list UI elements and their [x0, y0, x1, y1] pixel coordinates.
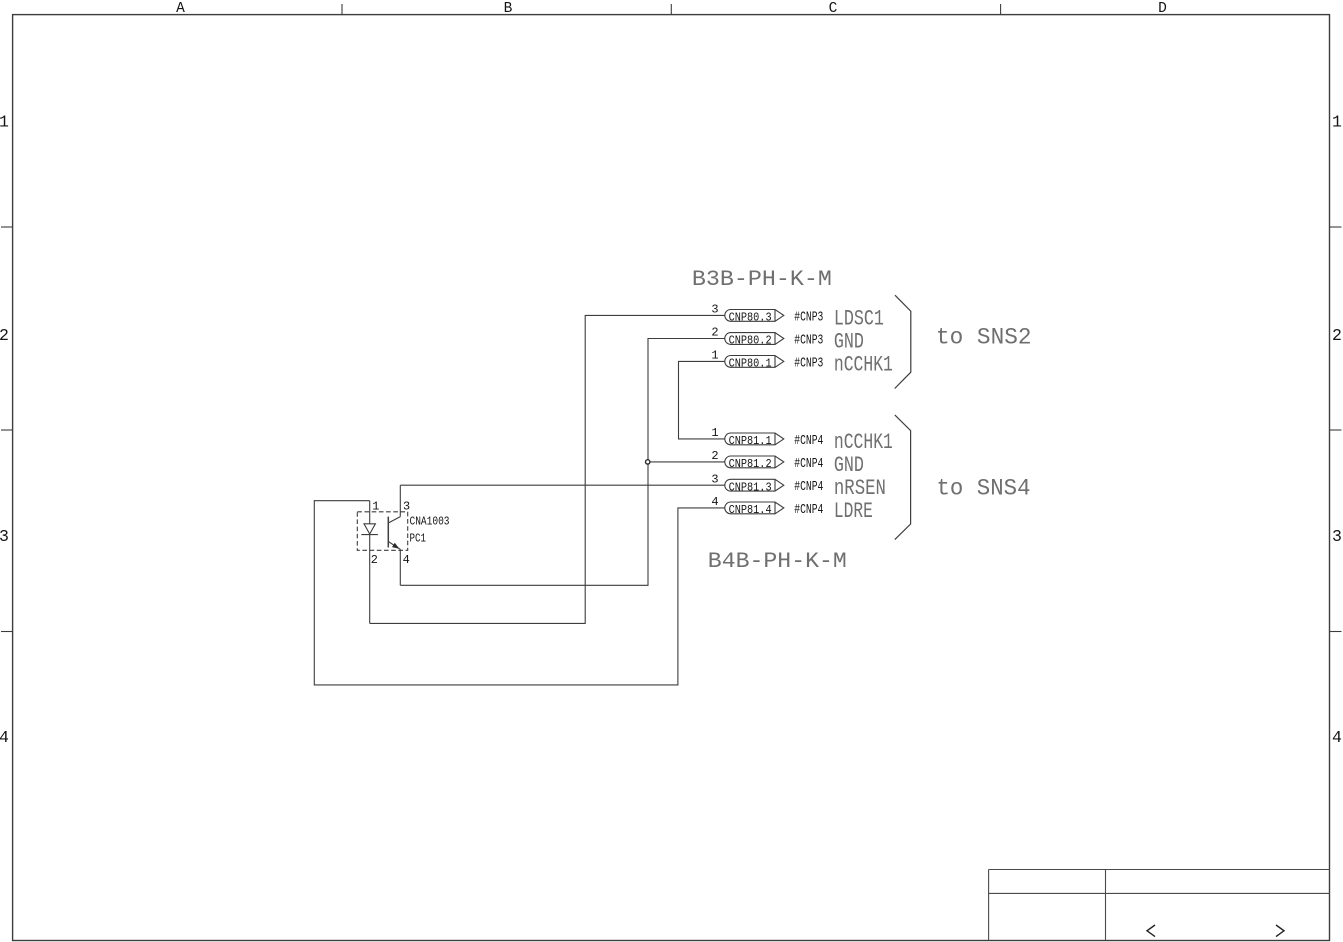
title block horizontal divider: [989, 892, 1330, 894]
svg-text:CNP81.2: CNP81.2: [729, 457, 772, 471]
port symbol CNP81.1: [725, 433, 784, 445]
svg-text:1: 1: [1332, 113, 1342, 132]
column tick 3: [1000, 4, 1002, 15]
svg-text:GND: GND: [834, 330, 864, 355]
svg-text:3: 3: [1332, 527, 1342, 546]
title block right chevron: [1276, 925, 1284, 937]
svg-text:4: 4: [403, 553, 410, 567]
row tick left 2: [1, 429, 13, 431]
port symbol CNP81.3: [725, 479, 784, 491]
svg-text:CNP81.1: CNP81.1: [729, 434, 772, 448]
svg-text:#CNP4: #CNP4: [794, 502, 823, 518]
svg-text:3: 3: [711, 472, 718, 486]
column tick 2: [670, 4, 672, 15]
svg-text:A: A: [176, 1, 185, 17]
svg-text:LDSC1: LDSC1: [834, 306, 884, 331]
wire net LDRE: CNP81.4 to PC1 pin1: [314, 501, 725, 685]
svg-text:#CNP3: #CNP3: [794, 309, 823, 325]
svg-text:LDRE: LDRE: [834, 499, 873, 524]
wire net LDSC1: CNP80.3 to PC1 pin2: [370, 315, 725, 623]
svg-text:nRSEN: nRSEN: [834, 476, 886, 501]
svg-text:CNP81.3: CNP81.3: [729, 480, 772, 494]
wire net GND: CNP80.2 down to PC1 pin4: [400, 339, 725, 586]
svg-text:1: 1: [711, 426, 718, 440]
svg-text:B4B-PH-K-M: B4B-PH-K-M: [708, 549, 847, 574]
svg-text:2: 2: [371, 553, 378, 567]
svg-text:nCCHK1: nCCHK1: [834, 430, 893, 455]
row tick left 1: [1, 226, 13, 228]
svg-text:1: 1: [0, 113, 9, 132]
PC1 LED diode triangle: [364, 524, 375, 534]
PC1 transistor emitter: [388, 542, 400, 550]
title block left edge: [988, 870, 990, 941]
svg-text:GND: GND: [834, 453, 864, 478]
PC1 LED cathode bar: [361, 534, 378, 536]
svg-text:nCCHK1: nCCHK1: [834, 352, 893, 377]
title block vertical divider: [1105, 870, 1107, 941]
svg-text:CNA1003: CNA1003: [410, 515, 450, 529]
svg-text:D: D: [1158, 1, 1167, 17]
svg-text:to SNS4: to SNS4: [937, 476, 1031, 502]
PC1 transistor base bar: [387, 517, 389, 548]
row tick right 3: [1330, 631, 1342, 633]
port symbol CNP80.1: [725, 356, 784, 368]
title block left chevron: [1147, 925, 1155, 937]
svg-text:CNP80.1: CNP80.1: [729, 357, 772, 371]
svg-text:4: 4: [0, 728, 9, 747]
PC1 emitter arrowhead: [392, 543, 399, 549]
bracket to SNS4: [895, 415, 911, 540]
svg-text:3: 3: [711, 303, 718, 317]
wire net GND branch to CNP81.2: [648, 461, 725, 463]
svg-text:B3B-PH-K-M: B3B-PH-K-M: [692, 267, 832, 292]
svg-text:#CNP4: #CNP4: [794, 479, 823, 495]
PC1 transistor collector: [388, 517, 400, 523]
port symbol CNP81.2: [725, 456, 784, 468]
row tick left 3: [1, 631, 13, 633]
svg-text:#CNP4: #CNP4: [794, 456, 823, 472]
svg-text:CNP80.3: CNP80.3: [729, 311, 772, 325]
column tick 1: [341, 4, 343, 15]
svg-text:4: 4: [1332, 728, 1342, 747]
svg-text:4: 4: [711, 495, 718, 509]
svg-text:CNP80.2: CNP80.2: [729, 334, 772, 348]
wire net nCCHK1: CNP80.1 to CNP81.1: [679, 361, 725, 439]
svg-text:B: B: [504, 1, 513, 17]
svg-text:1: 1: [711, 349, 718, 363]
svg-text:CNP81.4: CNP81.4: [729, 503, 772, 517]
svg-text:C: C: [829, 1, 838, 17]
PC1 pin4 lead: [399, 549, 401, 585]
svg-text:#CNP3: #CNP3: [794, 333, 823, 349]
port symbol CNP81.4: [725, 502, 784, 514]
svg-text:#CNP4: #CNP4: [794, 433, 823, 449]
svg-text:2: 2: [711, 326, 718, 340]
row tick right 1: [1330, 226, 1342, 228]
svg-text:to SNS2: to SNS2: [936, 324, 1032, 350]
svg-text:2: 2: [1332, 326, 1342, 345]
port symbol CNP80.2: [725, 333, 784, 345]
svg-text:2: 2: [0, 326, 9, 345]
svg-text:PC1: PC1: [410, 532, 427, 546]
junction node GND: [646, 460, 650, 464]
PC1 pin1 lead: [369, 501, 371, 524]
optocoupler PC1 dashed body: [357, 512, 407, 551]
svg-text:1: 1: [372, 500, 379, 514]
row tick right 2: [1330, 429, 1342, 431]
svg-text:#CNP3: #CNP3: [794, 355, 823, 371]
wire net nRSEN: PC1 pin3 to CNP81.3: [400, 484, 725, 486]
PC1 pin3 lead: [399, 485, 401, 516]
title block top edge: [989, 869, 1330, 871]
bracket to SNS2: [895, 295, 911, 388]
port symbol CNP80.3: [725, 310, 784, 322]
svg-text:3: 3: [403, 500, 410, 514]
PC1 pin2 lead: [369, 535, 371, 624]
svg-text:2: 2: [711, 449, 718, 463]
svg-text:3: 3: [0, 527, 9, 546]
